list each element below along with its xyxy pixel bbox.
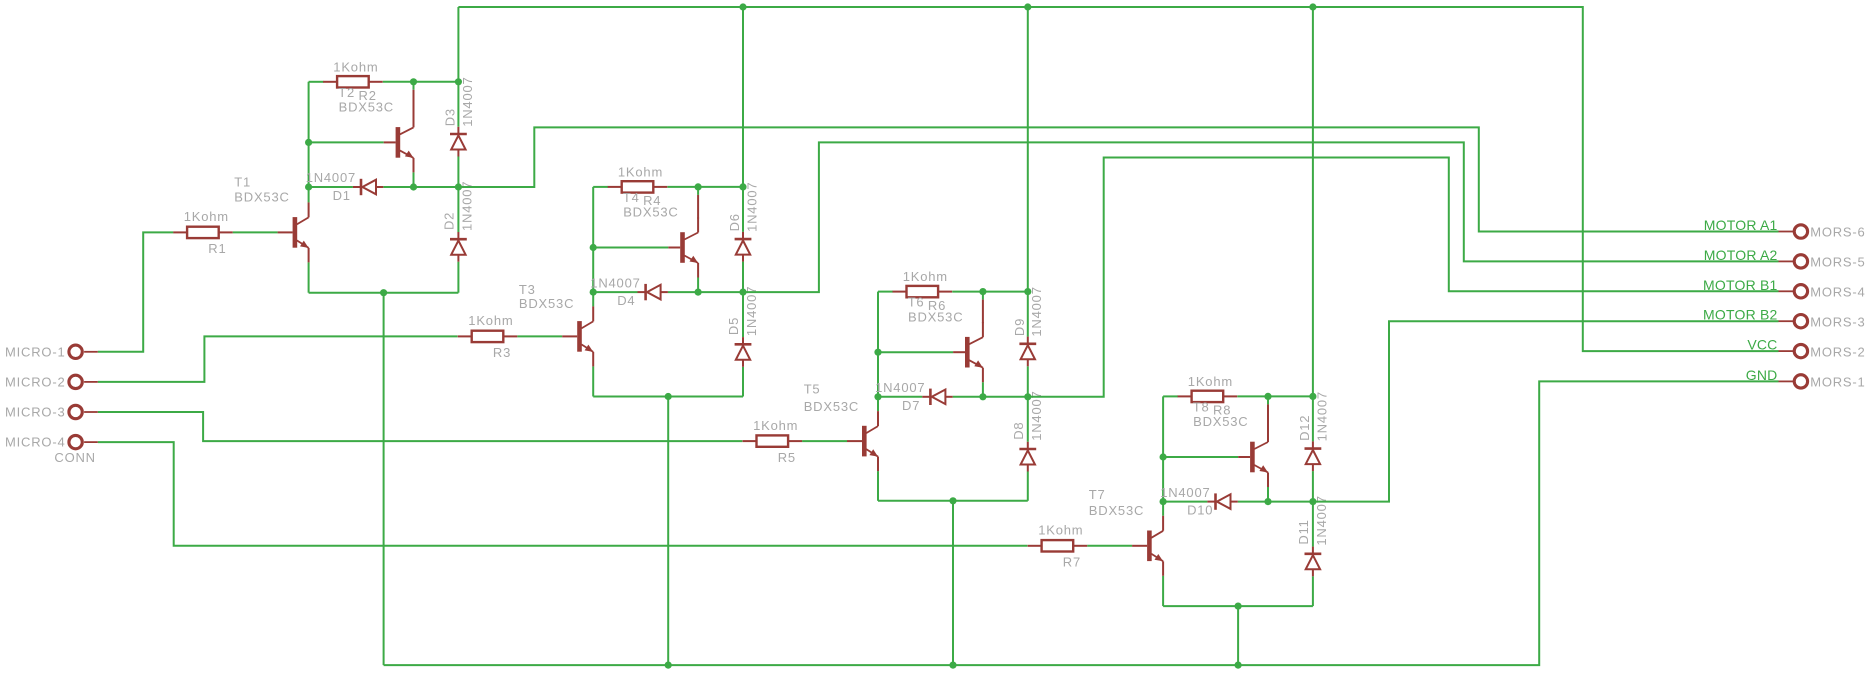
- pin MICRO-3: [69, 405, 98, 418]
- wire stage4 D12 column lower: [1312, 471, 1314, 502]
- wire stage2 T4 collector: [697, 187, 699, 195]
- resistor R3: [458, 331, 518, 342]
- svg-text:D10: D10: [1187, 503, 1213, 518]
- svg-text:D9: D9: [1012, 318, 1027, 336]
- wire stage3 D row right: [953, 396, 1028, 398]
- diode D12: [1305, 441, 1322, 471]
- pin MICRO-2: [69, 375, 98, 388]
- transistor T5: [862, 411, 878, 471]
- wire stage3 D8 column upper: [1027, 397, 1029, 442]
- wire stage2 T3 collector: [592, 292, 594, 306]
- svg-text:BDX53C: BDX53C: [519, 296, 574, 311]
- wire stage1 D2 column upper: [457, 187, 459, 232]
- wire MOTOR A2 net: [743, 142, 1779, 292]
- wire GND rail: [384, 381, 1779, 665]
- wire stage4 T7 collector: [1162, 502, 1164, 516]
- svg-text:1Kohm: 1Kohm: [903, 269, 948, 284]
- svg-text:MORS-1: MORS-1: [1810, 375, 1865, 390]
- svg-text:MORS-6: MORS-6: [1810, 225, 1865, 240]
- svg-text:D5: D5: [726, 317, 741, 335]
- wire stage2 R row right: [667, 186, 743, 188]
- node stage4 R row / column junction: [1309, 393, 1316, 400]
- wire stage4 T8 emitter: [1267, 487, 1269, 502]
- wire stage3 T5 emitter: [877, 471, 879, 501]
- wire stage2 D row left: [593, 291, 637, 293]
- wire T2 collector lead: [413, 90, 415, 114]
- wire stage2 upper base: [593, 247, 668, 249]
- svg-text:1N4007: 1N4007: [1029, 390, 1044, 440]
- wire stage1 D3 column upper: [457, 7, 459, 127]
- transistor T6: [965, 322, 983, 382]
- svg-text:R1: R1: [208, 241, 226, 256]
- svg-text:MICRO-1: MICRO-1: [5, 344, 66, 359]
- svg-text:D1: D1: [333, 188, 351, 203]
- svg-text:1N4007: 1N4007: [1314, 495, 1329, 545]
- wire stage3 emitter drop: [952, 501, 954, 665]
- node stage3 collector junction: [979, 288, 986, 295]
- node stage3 emitter/output junction: [979, 393, 986, 400]
- junction GND rail / stage2 emitter drop: [665, 662, 672, 669]
- svg-text:1Kohm: 1Kohm: [468, 313, 513, 328]
- svg-text:1N4007: 1N4007: [1160, 485, 1210, 500]
- wire stage4 D12 column upper: [1312, 7, 1314, 441]
- wire T8 collector lead: [1267, 404, 1269, 428]
- node stage3 output column junction: [1024, 393, 1031, 400]
- svg-text:BDX53C: BDX53C: [623, 205, 678, 220]
- wire VCC rail: [458, 7, 1778, 351]
- resistor R5: [743, 435, 803, 446]
- resistor R7: [1028, 540, 1088, 551]
- wire MICRO-2 to R3: [98, 336, 458, 382]
- wire stage4 D row left: [1163, 501, 1207, 503]
- svg-text:BDX53C: BDX53C: [804, 399, 859, 414]
- diode D7: [922, 389, 952, 405]
- svg-text:T5: T5: [804, 381, 821, 396]
- diode D8: [1019, 442, 1036, 472]
- svg-text:BDX53C: BDX53C: [908, 309, 963, 324]
- svg-text:BDX53C: BDX53C: [1089, 503, 1144, 518]
- wire stage4 upper base: [1163, 456, 1238, 458]
- junction VCC rail / stage4 column: [1309, 3, 1316, 10]
- resistor R2: [323, 76, 383, 87]
- wire stage3 D8 column lower: [1027, 472, 1029, 501]
- pin MORS-6: [1779, 225, 1808, 238]
- wire stage1 T2 collector: [413, 82, 415, 90]
- node stage2 emitter row junction: [665, 393, 672, 400]
- node stage1 emitter/output junction: [410, 183, 417, 190]
- pin MORS-1: [1779, 375, 1808, 388]
- node stage4 output left junction: [1160, 498, 1167, 505]
- transistor T7: [1147, 516, 1163, 576]
- wire MICRO-1 to R1: [98, 232, 173, 351]
- svg-text:D12: D12: [1297, 415, 1312, 441]
- wire stage3 T5 collector: [877, 397, 879, 411]
- node stage2 output column junction: [739, 289, 746, 296]
- wire stage1 T1 emitter: [308, 262, 310, 292]
- diode D6: [735, 232, 752, 262]
- svg-text:D4: D4: [617, 293, 635, 308]
- wire T1 base lead: [278, 231, 293, 233]
- wire stage2 left rail: [592, 187, 594, 292]
- wire stage4 emitter drop: [1237, 606, 1239, 665]
- svg-text:D8: D8: [1011, 422, 1026, 440]
- wire stage2 T4 emitter: [697, 278, 699, 293]
- svg-text:D2: D2: [442, 212, 457, 230]
- diode D2: [450, 232, 467, 262]
- node stage1 output column junction: [455, 183, 462, 190]
- node stage4 emitter row junction: [1235, 603, 1242, 610]
- diode D11: [1305, 547, 1322, 577]
- wire stage4 T8 collector: [1267, 396, 1269, 404]
- svg-text:1Kohm: 1Kohm: [618, 165, 663, 180]
- wire stage2 emitter drop: [667, 397, 669, 666]
- wire T6 collector lead: [982, 300, 984, 324]
- node stage1 base junction: [305, 139, 312, 146]
- diode D4: [638, 284, 668, 300]
- svg-text:D3: D3: [443, 108, 458, 126]
- svg-text:MICRO-3: MICRO-3: [5, 405, 66, 420]
- node stage2 output left junction: [590, 289, 597, 296]
- diode D1: [353, 179, 383, 195]
- junction GND rail / stage3 emitter drop: [949, 662, 956, 669]
- pin MORS-5: [1779, 255, 1808, 268]
- transistor T2: [396, 112, 414, 172]
- resistor R6: [893, 286, 953, 297]
- wire stage2 T3 base: [517, 335, 562, 337]
- node stage3 base junction: [874, 349, 881, 356]
- svg-text:MOTOR B1: MOTOR B1: [1703, 277, 1777, 293]
- pin MORS-3: [1779, 315, 1808, 328]
- wire stage3 R row left: [878, 291, 893, 293]
- wire stage1 T1 base: [233, 231, 278, 233]
- wire stage3 T6 collector: [982, 292, 984, 300]
- svg-text:MOTOR B2: MOTOR B2: [1703, 307, 1777, 323]
- node stage2 base junction: [590, 244, 597, 251]
- svg-text:1Kohm: 1Kohm: [333, 59, 378, 74]
- node stage3 output left junction: [874, 393, 881, 400]
- svg-text:MORS-2: MORS-2: [1810, 344, 1865, 359]
- diode D5: [735, 337, 752, 367]
- node stage2 R row / column junction: [739, 183, 746, 190]
- node stage1 R row / column junction: [455, 78, 462, 85]
- wire stage3 T5 base: [802, 440, 847, 442]
- svg-text:1N4007: 1N4007: [1029, 286, 1044, 336]
- wire MOTOR B2 net: [1313, 321, 1779, 501]
- wire stage3 T6 emitter: [982, 382, 984, 397]
- pin MICRO-4: [69, 435, 98, 448]
- wire stage2 emitter row: [593, 396, 743, 398]
- svg-text:1N4007: 1N4007: [744, 182, 759, 232]
- wire stage2 D6 column lower: [742, 262, 744, 293]
- transistor T4: [680, 218, 698, 278]
- svg-text:R7: R7: [1063, 555, 1081, 570]
- svg-text:T4: T4: [623, 190, 640, 205]
- svg-text:1N4007: 1N4007: [460, 76, 475, 126]
- node stage2 collector junction: [695, 183, 702, 190]
- wire stage3 upper base: [878, 351, 953, 353]
- svg-text:D11: D11: [1296, 519, 1311, 544]
- wire stage2 D5 column lower: [742, 367, 744, 397]
- node stage3 emitter row junction: [949, 497, 956, 504]
- wire stage2 D5 column upper: [742, 292, 744, 337]
- node stage1 collector junction: [410, 78, 417, 85]
- node stage2 emitter/output junction: [695, 289, 702, 296]
- wire stage4 D row right: [1238, 501, 1313, 503]
- svg-text:MOTOR A1: MOTOR A1: [1704, 217, 1778, 233]
- svg-text:1Kohm: 1Kohm: [1188, 374, 1233, 389]
- wire stage4 emitter row: [1163, 605, 1313, 607]
- svg-text:T7: T7: [1089, 487, 1106, 502]
- diode D9: [1019, 337, 1036, 367]
- wire T5 base lead: [847, 440, 862, 442]
- wire stage1 D row left: [309, 186, 353, 188]
- svg-text:MORS-3: MORS-3: [1810, 314, 1865, 329]
- svg-text:1N4007: 1N4007: [306, 170, 356, 185]
- svg-text:1N4007: 1N4007: [744, 286, 759, 336]
- wire MOTOR B1 net: [1028, 158, 1779, 397]
- wire MICRO-4 to R7: [98, 442, 1028, 546]
- node stage4 emitter/output junction: [1264, 498, 1271, 505]
- svg-text:MOTOR A2: MOTOR A2: [1704, 247, 1778, 263]
- resistor R4: [608, 181, 668, 192]
- wire T4 base lead: [668, 247, 680, 249]
- wire stage1 emitter drop: [383, 293, 385, 665]
- wire T6 base lead: [953, 351, 965, 353]
- wire stage2 D row right: [668, 291, 743, 293]
- pin MORS-2: [1779, 344, 1808, 357]
- diode D3: [450, 127, 467, 157]
- svg-text:VCC: VCC: [1747, 337, 1777, 353]
- wire T2 base lead: [384, 141, 396, 143]
- wire stage1 D2 column lower: [457, 262, 459, 293]
- svg-text:MORS-5: MORS-5: [1810, 255, 1865, 270]
- svg-text:BDX53C: BDX53C: [339, 100, 394, 115]
- pin MORS-4: [1779, 285, 1808, 298]
- transistor T1: [293, 202, 309, 262]
- node stage1 emitter row junction: [380, 289, 387, 296]
- wire stage2 D6 column upper: [742, 7, 744, 232]
- svg-text:BDX53C: BDX53C: [1193, 414, 1248, 429]
- wire T7 base lead: [1132, 545, 1147, 547]
- wire stage1 R row left: [309, 81, 324, 83]
- wire stage3 D row left: [878, 396, 922, 398]
- wire stage1 emitter row: [309, 292, 459, 294]
- svg-text:MORS-4: MORS-4: [1810, 285, 1865, 300]
- svg-text:BDX53C: BDX53C: [234, 190, 289, 205]
- svg-text:CONN: CONN: [54, 450, 95, 465]
- wire stage2 T3 emitter: [592, 366, 594, 396]
- wire stage4 R row right: [1237, 395, 1313, 397]
- wire MOTOR A1 net: [458, 127, 1778, 231]
- wire stage1 D row right: [383, 186, 458, 188]
- wire stage2 R row left: [593, 186, 608, 188]
- svg-text:1N4007: 1N4007: [460, 181, 475, 231]
- resistor R1: [173, 227, 233, 238]
- wire stage3 D9 column upper: [1027, 7, 1029, 337]
- junction VCC rail / stage3 column: [1024, 3, 1031, 10]
- wire MICRO-3 to R5: [98, 412, 743, 441]
- svg-text:T1: T1: [234, 175, 251, 190]
- svg-text:T8: T8: [1193, 400, 1210, 415]
- svg-text:D6: D6: [727, 213, 742, 231]
- wire T4 collector lead: [697, 195, 699, 219]
- transistor T3: [577, 306, 593, 366]
- svg-text:1N4007: 1N4007: [590, 275, 640, 290]
- wire T8 base lead: [1238, 456, 1250, 458]
- node stage4 collector junction: [1264, 393, 1271, 400]
- wire stage4 D11 column upper: [1312, 502, 1314, 547]
- wire stage1 T2 emitter: [413, 172, 415, 187]
- wire stage1 left rail: [308, 82, 310, 187]
- svg-text:T6: T6: [908, 295, 925, 310]
- svg-text:1N4007: 1N4007: [1314, 391, 1329, 441]
- junction GND rail / stage4 emitter drop: [1235, 662, 1242, 669]
- junction VCC rail / stage2 column: [739, 3, 746, 10]
- wire stage1 T1 collector: [308, 187, 310, 202]
- wire stage1 upper base: [309, 141, 384, 143]
- svg-text:MICRO-4: MICRO-4: [5, 435, 66, 450]
- wire T3 base lead: [562, 335, 577, 337]
- svg-text:MICRO-2: MICRO-2: [5, 374, 66, 389]
- wire stage1 D3 column lower: [457, 157, 459, 188]
- wire stage3 left rail: [877, 292, 879, 397]
- svg-text:1Kohm: 1Kohm: [1038, 523, 1083, 538]
- transistor T8: [1250, 427, 1268, 487]
- wire stage1 R row right: [383, 81, 459, 83]
- wire stage3 emitter row: [878, 500, 1028, 502]
- svg-text:R5: R5: [778, 450, 796, 465]
- pin MICRO-1: [69, 345, 98, 358]
- svg-text:R3: R3: [493, 345, 511, 360]
- wire stage4 R row left: [1163, 395, 1178, 397]
- resistor R8: [1178, 391, 1238, 402]
- node stage1 output left junction: [305, 183, 312, 190]
- svg-text:GND: GND: [1746, 367, 1778, 383]
- svg-text:1Kohm: 1Kohm: [753, 418, 798, 433]
- node stage4 base junction: [1160, 453, 1167, 460]
- wire stage4 T7 base: [1087, 545, 1132, 547]
- wire stage4 D11 column lower: [1312, 576, 1314, 606]
- node stage3 R row / column junction: [1024, 288, 1031, 295]
- svg-text:1Kohm: 1Kohm: [184, 209, 229, 224]
- wire stage4 left rail: [1162, 396, 1164, 501]
- wire stage3 D9 column lower: [1027, 366, 1029, 397]
- svg-text:D7: D7: [902, 398, 920, 413]
- diode D10: [1207, 493, 1237, 509]
- wire stage3 R row right: [952, 291, 1028, 293]
- wire stage4 T7 emitter: [1162, 576, 1164, 606]
- node stage4 output column junction: [1309, 498, 1316, 505]
- svg-text:1N4007: 1N4007: [875, 380, 925, 395]
- svg-text:T2: T2: [338, 85, 355, 100]
